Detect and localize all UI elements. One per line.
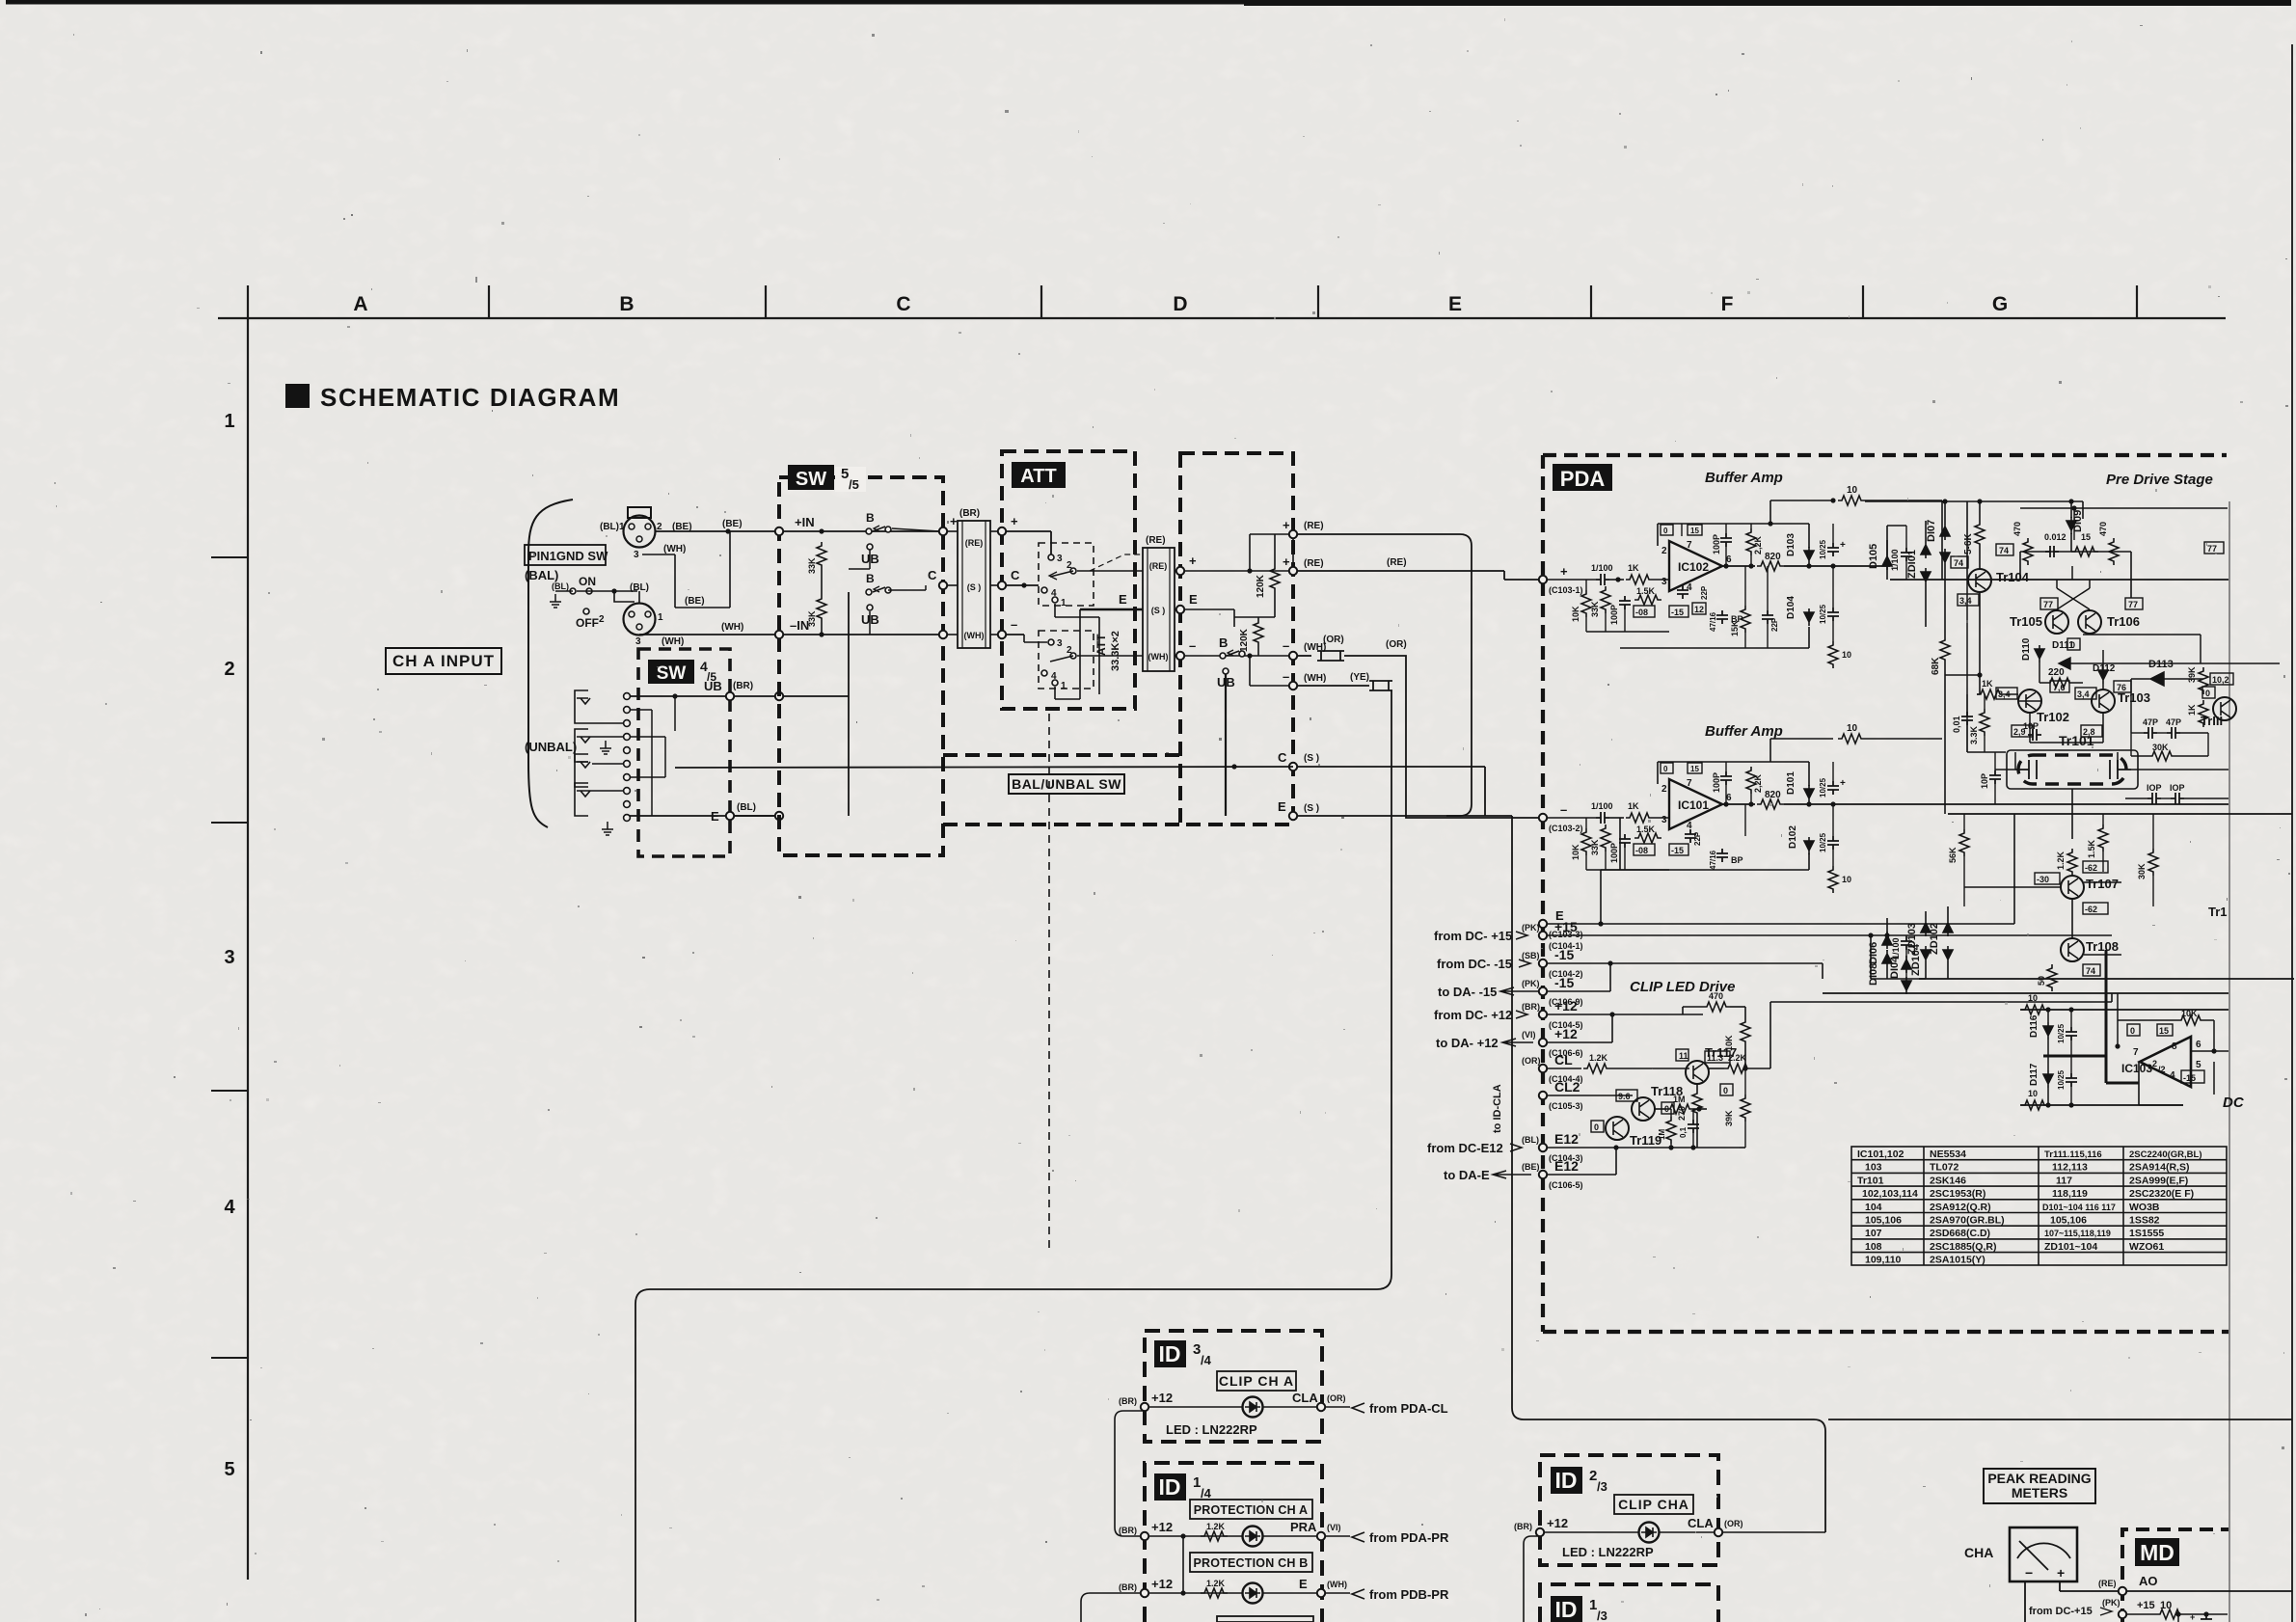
svg-text:1: 1 (1061, 681, 1067, 691)
svg-text:B: B (619, 293, 634, 315)
svg-text:+IN: +IN (795, 515, 815, 529)
svg-text:D: D (1173, 293, 1187, 315)
svg-text:5: 5 (224, 1459, 234, 1480)
svg-text:(S ): (S ) (1304, 803, 1319, 814)
svg-text:C: C (896, 293, 910, 315)
svg-text:100P: 100P (1712, 772, 1721, 793)
svg-text:from PDA-CL: from PDA-CL (1369, 1401, 1448, 1416)
svg-text:56K: 56K (1948, 847, 1958, 863)
svg-text:(BE): (BE) (685, 596, 705, 607)
svg-text:Tr1: Tr1 (2208, 905, 2228, 919)
svg-text:1M: 1M (1673, 1095, 1686, 1104)
svg-text:1M: 1M (1658, 1129, 1666, 1140)
svg-text:Tr108: Tr108 (2086, 939, 2119, 954)
svg-text:107~115,118,119: 107~115,118,119 (2044, 1229, 2111, 1238)
svg-text:(UNBAL): (UNBAL) (525, 740, 577, 754)
svg-text:MD: MD (2140, 1540, 2174, 1565)
svg-text:(PK): (PK) (2102, 1598, 2120, 1608)
svg-text:470: 470 (2012, 522, 2022, 536)
svg-text:76: 76 (2117, 683, 2126, 692)
svg-text:-15: -15 (1671, 846, 1684, 855)
svg-text:15: 15 (1690, 765, 1699, 773)
svg-text:E: E (711, 809, 719, 824)
svg-text:105,106: 105,106 (2050, 1215, 2087, 1227)
svg-text:10: 10 (1847, 723, 1858, 734)
svg-text:SCHEMATIC DIAGRAM: SCHEMATIC DIAGRAM (320, 383, 620, 412)
svg-text:DC: DC (2223, 1095, 2245, 1111)
svg-text:+: + (1283, 518, 1290, 532)
svg-text:105,106: 105,106 (1865, 1215, 1902, 1227)
svg-text:BP: BP (1731, 855, 1743, 865)
svg-text:15: 15 (1690, 527, 1699, 535)
svg-text:(C106-5): (C106-5) (1549, 1180, 1583, 1190)
svg-text:PROTECTION CH B: PROTECTION CH B (1194, 1556, 1309, 1570)
svg-text:2SC1953(R): 2SC1953(R) (1930, 1188, 1985, 1200)
svg-text:IC101,102: IC101,102 (1857, 1149, 1904, 1160)
svg-text:Tr101: Tr101 (2059, 733, 2094, 748)
svg-text:(BE): (BE) (722, 519, 743, 529)
svg-text:D112: D112 (2093, 663, 2116, 674)
svg-text:Tr107: Tr107 (2086, 877, 2119, 891)
svg-text:74: 74 (2086, 966, 2095, 976)
svg-text:7: 7 (1687, 778, 1692, 789)
svg-text:2SA1015(Y): 2SA1015(Y) (1930, 1255, 1985, 1266)
svg-text:(BL)1: (BL)1 (600, 522, 625, 532)
svg-text:(OR): (OR) (1386, 639, 1407, 650)
svg-text:15: 15 (2159, 1026, 2169, 1036)
svg-text:from PDB-PR: from PDB-PR (1369, 1587, 1449, 1602)
svg-text:120K: 120K (1239, 628, 1250, 652)
svg-text:2SK146: 2SK146 (1930, 1175, 1966, 1186)
svg-text:+: + (1840, 540, 1846, 551)
svg-text:ATT: ATT (1094, 634, 1108, 656)
svg-text:12: 12 (1694, 605, 1704, 614)
svg-text:(YE): (YE) (1350, 672, 1369, 683)
svg-text:3,4: 3,4 (1959, 596, 1972, 606)
svg-text:(OR): (OR) (1327, 1393, 1346, 1403)
svg-text:3: 3 (224, 947, 234, 968)
svg-text:–: – (1283, 669, 1289, 684)
svg-text:(C104-1): (C104-1) (1549, 941, 1583, 951)
svg-text:PROTECTION CH A: PROTECTION CH A (1194, 1503, 1309, 1517)
svg-text:2SD668(C.D): 2SD668(C.D) (1930, 1228, 1990, 1239)
svg-text:10K: 10K (1571, 606, 1580, 622)
svg-text:(C106-6): (C106-6) (1549, 1048, 1583, 1058)
svg-text:+: + (2057, 1565, 2065, 1581)
svg-text:METERS: METERS (2012, 1485, 2067, 1500)
svg-text:Buffer Amp: Buffer Amp (1705, 470, 1783, 486)
svg-text:0: 0 (1723, 1086, 1728, 1095)
svg-text:E12: E12 (1554, 1131, 1579, 1147)
svg-text:Pre Drive Stage: Pre Drive Stage (2106, 472, 2213, 488)
svg-text:Tr105: Tr105 (2010, 614, 2042, 629)
svg-text:3: 3 (635, 636, 641, 647)
svg-text:(S ): (S ) (967, 582, 982, 592)
svg-text:74: 74 (1999, 546, 2009, 555)
svg-text:ID: ID (1555, 1468, 1578, 1493)
svg-text:/3: /3 (1597, 1608, 1607, 1622)
svg-text:1K: 1K (1982, 679, 1993, 689)
svg-text:1.2K: 1.2K (1206, 1522, 1226, 1531)
svg-text:/3: /3 (1597, 1479, 1607, 1494)
svg-text:D101: D101 (1786, 771, 1796, 795)
svg-text:10K: 10K (1571, 844, 1580, 860)
svg-text:47P: 47P (2166, 717, 2181, 727)
svg-text:Tr101: Tr101 (1857, 1175, 1884, 1186)
svg-text:B: B (866, 511, 875, 525)
svg-text:10K: 10K (1724, 1035, 1734, 1051)
svg-text:IC103: IC103 (2121, 1062, 2152, 1075)
svg-text:to DA- +12: to DA- +12 (1436, 1036, 1499, 1050)
svg-text:2SC2320(E F): 2SC2320(E F) (2129, 1188, 2194, 1200)
svg-text:(S ): (S ) (1304, 753, 1319, 764)
svg-text:33K: 33K (1590, 839, 1600, 855)
svg-text:D101~104 116 117: D101~104 116 117 (2042, 1203, 2116, 1212)
svg-text:104: 104 (1865, 1202, 1882, 1213)
svg-text:to DA- -15: to DA- -15 (1438, 985, 1497, 999)
svg-text:-62: -62 (2085, 863, 2097, 873)
svg-text:CLIP CH A: CLIP CH A (1219, 1373, 1294, 1389)
svg-text:100P: 100P (1712, 534, 1721, 554)
svg-text:Tr111.115,116: Tr111.115,116 (2044, 1149, 2102, 1160)
svg-text:22P: 22P (1693, 831, 1702, 846)
svg-text:(BL): (BL) (1522, 1135, 1539, 1145)
svg-text:PRA: PRA (1290, 1520, 1317, 1534)
svg-text:0,1: 0,1 (1679, 1126, 1688, 1138)
svg-text:(WH): (WH) (663, 544, 686, 554)
svg-text:DI07: DI07 (1926, 520, 1937, 542)
svg-text:+: + (1011, 514, 1018, 528)
svg-text:5: 5 (2196, 1060, 2201, 1070)
svg-text:+15: +15 (1554, 919, 1578, 934)
svg-text:(PK): (PK) (1522, 979, 1540, 988)
svg-text:1: 1 (658, 612, 663, 623)
svg-text:(BAL): (BAL) (525, 568, 558, 582)
svg-text:220: 220 (2048, 667, 2065, 678)
svg-text:1: 1 (1061, 598, 1067, 608)
svg-text:2: 2 (1067, 645, 1072, 656)
svg-text:6: 6 (1726, 554, 1732, 565)
svg-text:(RE): (RE) (1304, 558, 1324, 569)
svg-text:4: 4 (224, 1197, 235, 1218)
svg-text:33K: 33K (807, 557, 817, 574)
svg-text:5-6K: 5-6K (1963, 533, 1974, 554)
svg-text:OFF: OFF (576, 616, 599, 630)
svg-text:11.3: 11.3 (1707, 1053, 1723, 1063)
svg-text:0: 0 (2205, 689, 2210, 698)
svg-text:ZDI01: ZDI01 (1906, 550, 1918, 579)
svg-text:108: 108 (1865, 1241, 1882, 1253)
svg-text:E: E (1189, 592, 1198, 607)
svg-text:(BE): (BE) (1522, 1162, 1540, 1172)
svg-text:2: 2 (599, 614, 605, 625)
svg-text:1/100: 1/100 (1891, 937, 1901, 960)
svg-text:Buffer Amp: Buffer Amp (1705, 723, 1783, 740)
svg-text:ATT: ATT (1020, 466, 1056, 487)
svg-text:1.2K: 1.2K (2056, 851, 2066, 870)
svg-text:3.3K: 3.3K (1969, 725, 1979, 744)
svg-text:3: 3 (1057, 554, 1063, 564)
svg-text:30K: 30K (2137, 863, 2147, 879)
svg-text:6: 6 (1726, 793, 1732, 803)
svg-text:PIN1GND SW: PIN1GND SW (528, 549, 608, 563)
svg-text:/4: /4 (1201, 1486, 1212, 1500)
svg-text:+12: +12 (1151, 1391, 1173, 1405)
svg-text:WO3B: WO3B (2129, 1202, 2160, 1213)
svg-text:from DC- +15: from DC- +15 (1434, 929, 1512, 943)
svg-text:15: 15 (2081, 532, 2091, 542)
svg-text:-62: -62 (2085, 905, 2097, 914)
svg-text:2SA970(GR.BL): 2SA970(GR.BL) (1930, 1215, 2005, 1227)
svg-text:PDA: PDA (1560, 467, 1606, 491)
svg-text:D110: D110 (2021, 637, 2032, 661)
svg-text:0: 0 (2130, 1026, 2135, 1036)
svg-text:33K: 33K (1590, 601, 1600, 617)
svg-text:D113: D113 (2148, 659, 2174, 670)
svg-text:820: 820 (1765, 552, 1781, 562)
svg-text:117: 117 (2056, 1175, 2072, 1186)
svg-text:2SA999(E,F): 2SA999(E,F) (2129, 1175, 2188, 1186)
svg-text:(WH): (WH) (662, 636, 684, 647)
svg-text:10/25: 10/25 (2057, 1023, 2066, 1043)
svg-text:IC102: IC102 (1678, 560, 1709, 574)
svg-text:D105: D105 (1868, 544, 1879, 569)
svg-text:39K: 39K (1724, 1110, 1734, 1126)
svg-text:47/16: 47/16 (1709, 611, 1717, 632)
svg-text:10/25: 10/25 (1819, 832, 1827, 852)
svg-text:CLA: CLA (1688, 1516, 1714, 1530)
svg-text:0,01: 0,01 (1952, 716, 1961, 733)
svg-text:ZD104: ZD104 (1910, 943, 1922, 976)
svg-text:39K: 39K (2187, 666, 2197, 683)
svg-text:0: 0 (1594, 1122, 1599, 1132)
svg-text:DI04: DI04 (1889, 956, 1901, 979)
svg-text:1/100: 1/100 (1890, 549, 1900, 571)
svg-text:-30: -30 (2037, 875, 2049, 884)
svg-text:(OR): (OR) (1522, 1056, 1541, 1066)
svg-text:/5: /5 (849, 477, 859, 492)
svg-text:3: 3 (1661, 815, 1667, 825)
svg-text:CH A INPUT: CH A INPUT (392, 652, 495, 670)
svg-text:7: 7 (1687, 540, 1692, 551)
svg-text:(RE): (RE) (1146, 535, 1166, 546)
svg-text:1S1555: 1S1555 (2129, 1228, 2164, 1239)
svg-text:1/100: 1/100 (1591, 563, 1613, 573)
svg-text:Tr106: Tr106 (2107, 614, 2140, 629)
svg-text:10: 10 (1842, 875, 1851, 884)
svg-text:B: B (1219, 635, 1228, 650)
svg-text:D117: D117 (2029, 1063, 2039, 1086)
svg-text:3: 3 (1057, 638, 1063, 649)
svg-text:(RE): (RE) (2098, 1579, 2117, 1588)
svg-text:(C105-3): (C105-3) (1549, 1101, 1583, 1111)
svg-text:–: – (1011, 617, 1017, 632)
svg-text:(VI): (VI) (1327, 1523, 1341, 1532)
svg-text:118,119: 118,119 (2052, 1188, 2088, 1200)
svg-text:7: 7 (2133, 1047, 2139, 1058)
svg-text:(BR): (BR) (1119, 1526, 1137, 1535)
svg-text:1.5K: 1.5K (1636, 586, 1656, 596)
svg-text:SW: SW (657, 663, 687, 684)
svg-text:10: 10 (2028, 993, 2038, 1003)
svg-text:D111: D111 (2052, 640, 2074, 651)
svg-text:(BR): (BR) (1119, 1582, 1137, 1592)
svg-text:+12: +12 (1151, 1520, 1173, 1534)
svg-text:10: 10 (1842, 650, 1851, 660)
svg-text:1.2K: 1.2K (1206, 1579, 1226, 1588)
svg-text:47P: 47P (2143, 717, 2158, 727)
svg-text:+: + (950, 514, 958, 528)
svg-text:0: 0 (1663, 527, 1668, 535)
svg-text:(WH): (WH) (1304, 673, 1326, 684)
svg-text:E: E (1448, 293, 1462, 315)
svg-text:ID: ID (1555, 1597, 1578, 1622)
svg-text:112,113: 112,113 (2052, 1162, 2088, 1174)
svg-text:109,110: 109,110 (1865, 1255, 1902, 1266)
svg-text:10/25: 10/25 (2057, 1069, 2066, 1090)
svg-text:11: 11 (1679, 1051, 1688, 1061)
svg-text:SW: SW (796, 469, 826, 490)
svg-text:(WH): (WH) (1327, 1580, 1347, 1589)
svg-text:820: 820 (1765, 790, 1781, 800)
svg-text:1SS82: 1SS82 (2129, 1215, 2160, 1227)
svg-text:6: 6 (2196, 1040, 2201, 1050)
svg-text:107: 107 (1865, 1228, 1882, 1239)
svg-text:F: F (1721, 293, 1734, 315)
svg-text:ZD102: ZD102 (1929, 923, 1940, 955)
svg-text:100P: 100P (1609, 843, 1619, 863)
svg-text:to ID-CLA: to ID-CLA (1492, 1084, 1503, 1133)
svg-text:(RE): (RE) (965, 538, 984, 548)
svg-text:15K: 15K (1730, 620, 1740, 636)
svg-text:1: 1 (224, 411, 234, 432)
svg-text:100P: 100P (1609, 605, 1619, 625)
svg-text:Tr102: Tr102 (2037, 710, 2069, 724)
svg-text:+: + (1840, 778, 1846, 789)
svg-text:–: – (1560, 802, 1567, 817)
svg-text:–: – (1189, 638, 1196, 653)
svg-text:4: 4 (1687, 582, 1692, 593)
svg-text:33.3K×2: 33.3K×2 (1110, 631, 1121, 671)
svg-text:3: 3 (1661, 577, 1667, 587)
svg-text:77: 77 (2043, 600, 2053, 609)
svg-text:(RE): (RE) (1304, 521, 1324, 531)
svg-text:WZO61: WZO61 (2129, 1241, 2164, 1253)
svg-text:102,103,114: 102,103,114 (1862, 1188, 1918, 1200)
svg-text:(BR): (BR) (1522, 1002, 1540, 1012)
svg-text:2SC1885(Q,R): 2SC1885(Q,R) (1930, 1241, 1996, 1253)
svg-text:(C104-5): (C104-5) (1549, 1020, 1583, 1030)
svg-text:(S ): (S ) (1151, 606, 1166, 615)
svg-text:from PDA-PR: from PDA-PR (1369, 1530, 1449, 1545)
svg-text:(C103-1): (C103-1) (1549, 585, 1583, 595)
svg-text:ON: ON (579, 575, 596, 588)
svg-text:TrIII: TrIII (2201, 714, 2223, 728)
svg-text:7,6: 7,6 (2053, 683, 2066, 692)
svg-text:10/25: 10/25 (1819, 539, 1827, 559)
svg-text:-15: -15 (2183, 1073, 2196, 1083)
svg-text:from DC- +12: from DC- +12 (1434, 1008, 1512, 1022)
svg-text:from DC-+15: from DC-+15 (2029, 1606, 2093, 1617)
svg-text:(BR): (BR) (733, 681, 753, 691)
svg-text:Tr104: Tr104 (1996, 570, 2030, 584)
svg-text:77: 77 (2128, 600, 2138, 609)
svg-text:50: 50 (2037, 976, 2046, 986)
svg-text:4: 4 (2170, 1070, 2175, 1081)
svg-text:1/100: 1/100 (1591, 801, 1613, 811)
svg-text:3: 3 (634, 550, 639, 560)
svg-text:(RE): (RE) (1149, 561, 1168, 571)
svg-text:CLIP CHA: CLIP CHA (1618, 1497, 1689, 1512)
svg-text:1.5K: 1.5K (2087, 839, 2096, 858)
svg-text:/4: /4 (1201, 1353, 1212, 1367)
svg-text:to DA-E: to DA-E (1444, 1168, 1490, 1182)
svg-text:(C103-2): (C103-2) (1549, 824, 1583, 833)
svg-text:2SC2240(GR,BL): 2SC2240(GR,BL) (2129, 1149, 2202, 1160)
svg-text:C: C (928, 568, 937, 582)
svg-text:(BL): (BL) (552, 581, 569, 591)
svg-text:1K: 1K (2187, 704, 2197, 716)
svg-text:2: 2 (224, 659, 234, 680)
svg-text:LED : LN222RP: LED : LN222RP (1166, 1422, 1257, 1437)
svg-text:2,2K: 2,2K (1753, 535, 1763, 554)
svg-text:BAL/UNBAL SW: BAL/UNBAL SW (1012, 776, 1121, 792)
svg-text:(BR): (BR) (1514, 1522, 1532, 1531)
svg-text:10,2: 10,2 (2212, 675, 2229, 685)
svg-text:0: 0 (1663, 765, 1668, 773)
svg-text:CLA: CLA (1292, 1391, 1318, 1405)
svg-text:68K: 68K (1931, 657, 1941, 675)
svg-text:D103: D103 (1786, 533, 1796, 556)
svg-text:4: 4 (1687, 821, 1692, 831)
svg-text:2SA914(R,S): 2SA914(R,S) (2129, 1162, 2189, 1174)
svg-text:120K: 120K (1256, 574, 1266, 598)
svg-text:DI08: DI08 (1868, 963, 1879, 986)
svg-text:+: + (1560, 564, 1568, 579)
svg-text:D116: D116 (2029, 1014, 2039, 1038)
svg-text:2.2K: 2.2K (1728, 1053, 1747, 1063)
svg-text:1K: 1K (1628, 563, 1639, 573)
svg-text:2: 2 (1067, 560, 1072, 571)
svg-text:(C106-9): (C106-9) (1549, 997, 1583, 1007)
svg-text:1.2K: 1.2K (1589, 1053, 1608, 1063)
svg-text:E: E (1119, 592, 1127, 607)
svg-text:ID: ID (1159, 1341, 1181, 1366)
svg-text:2: 2 (1661, 546, 1667, 556)
svg-text:9.6: 9.6 (1618, 1092, 1631, 1101)
svg-text:10: 10 (1847, 485, 1858, 496)
svg-text:8: 8 (2172, 1041, 2177, 1052)
svg-text:A: A (353, 293, 367, 315)
svg-text:/2: /2 (2158, 1065, 2166, 1074)
svg-text:DI09: DI09 (2072, 510, 2084, 532)
svg-text:(C104-4): (C104-4) (1549, 1074, 1583, 1084)
svg-text:C: C (1011, 568, 1020, 582)
svg-text:0.012: 0.012 (2044, 532, 2066, 542)
svg-text:+: + (2190, 1612, 2195, 1622)
svg-text:DI06: DI06 (1868, 942, 1879, 964)
svg-text:77: 77 (2207, 544, 2217, 554)
svg-text:−: − (2025, 1565, 2033, 1581)
svg-text:–: – (1283, 638, 1289, 653)
svg-text:ID: ID (1159, 1474, 1181, 1500)
svg-text:C: C (1278, 750, 1287, 765)
svg-text:IOP: IOP (2147, 783, 2162, 793)
svg-text:CHA: CHA (1964, 1545, 1993, 1560)
svg-text:(PK): (PK) (1522, 923, 1540, 933)
svg-text:3,4: 3,4 (2077, 689, 2090, 699)
svg-text:from DC- -15: from DC- -15 (1437, 957, 1512, 971)
